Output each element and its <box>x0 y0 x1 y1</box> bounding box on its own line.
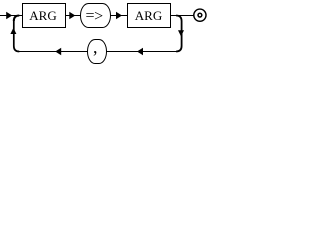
arrowhead right on entry wire <box>6 12 12 20</box>
svg-text:ARG: ARG <box>29 8 56 23</box>
wire main entry <box>0 15 23 17</box>
box ARG 2 <box>128 4 171 28</box>
arrowhead right between box1 and pill <box>69 12 75 20</box>
wire loop bottom right segment <box>107 51 178 53</box>
wire loop left vertical and bottom corner <box>14 20 19 52</box>
wire box2 to end terminal <box>171 15 194 17</box>
wire loop bottom left segment <box>19 51 88 53</box>
arrowhead left on bottom left segment <box>55 48 61 56</box>
pill terminal => <box>81 4 111 28</box>
end terminal inner ring <box>198 13 202 17</box>
bubble terminal comma <box>88 40 107 64</box>
svg-text:>: > <box>94 8 103 25</box>
wire pill to box2 <box>111 15 128 17</box>
wire loop merge arc left junction <box>14 16 19 22</box>
end terminal outer circle <box>194 9 206 21</box>
svg-text:ARG: ARG <box>135 8 162 23</box>
box ARG 1 <box>23 4 66 28</box>
svg-text:=: = <box>85 8 94 25</box>
wire loop exit arc and right vertical and bottom corner <box>176 16 182 52</box>
arrowhead right between pill and box2 <box>116 12 122 20</box>
arrowhead left on bottom right segment <box>137 48 143 56</box>
arrowhead up on left vertical <box>10 28 16 34</box>
arrowhead down on right vertical <box>178 30 184 36</box>
wire box1 to pill <box>66 15 81 17</box>
svg-text:,: , <box>93 37 98 57</box>
